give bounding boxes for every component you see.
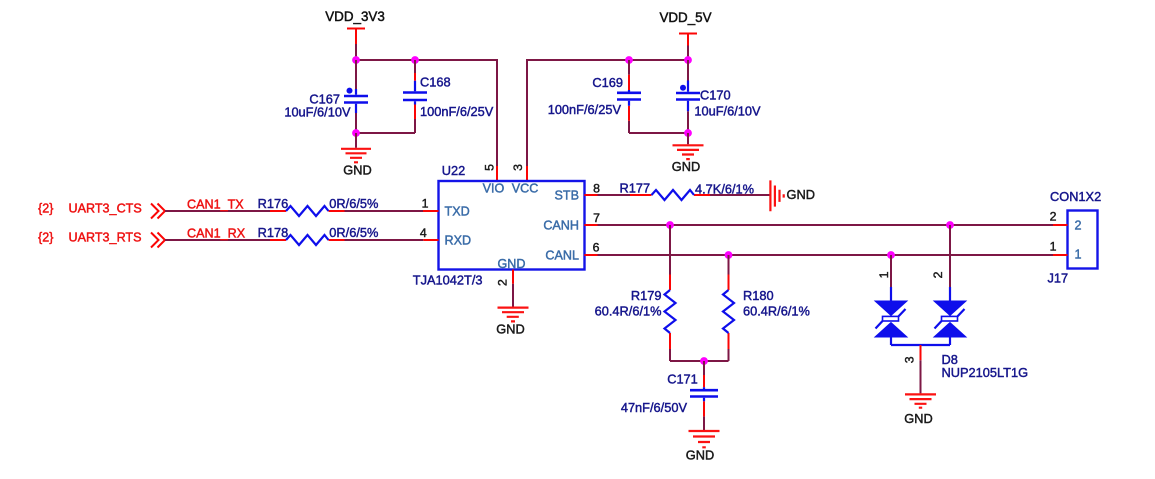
svg-text:2: 2: [931, 271, 945, 278]
svg-text:1: 1: [1050, 240, 1057, 254]
svg-text:GND: GND: [904, 411, 932, 426]
svg-text:STB: STB: [555, 189, 580, 203]
capacitor C169: [548, 60, 641, 133]
wire D8 pin3 to ground: [920, 360, 922, 393]
svg-text:GND: GND: [787, 187, 815, 202]
pin 2 stub J17: [1053, 224, 1068, 226]
wire CANH: [598, 224, 1054, 226]
node junction CANH at R179: [666, 221, 674, 229]
node junction C170 bottom: [684, 129, 692, 137]
svg-text:CAN1_RX: CAN1_RX: [187, 227, 246, 241]
wire D8 bottom bar: [891, 344, 950, 346]
svg-text:CON1X2: CON1X2: [1050, 189, 1101, 204]
svg-text:CANH: CANH: [543, 219, 579, 233]
svg-text:5: 5: [482, 164, 496, 171]
svg-text:C168: C168: [420, 75, 451, 90]
svg-text:CANL: CANL: [545, 248, 579, 262]
svg-text:C171: C171: [667, 372, 698, 387]
node junction CANL at D8: [887, 251, 895, 259]
svg-text:{2}: {2}: [38, 202, 53, 216]
svg-text:TJA1042T/3: TJA1042T/3: [413, 273, 483, 288]
svg-text:0R/6/5%: 0R/6/5%: [329, 225, 378, 240]
svg-text:R179: R179: [631, 288, 662, 303]
pin 1 stub J17: [1053, 254, 1068, 256]
capacitor C167: [284, 60, 368, 133]
ground under D8: [904, 394, 936, 425]
capacitor C168: [403, 60, 494, 133]
svg-text:1: 1: [877, 271, 891, 278]
D8 labels: [942, 352, 1029, 380]
transistor D8 TVS right diode: [934, 225, 966, 345]
svg-text:100nF/6/25V: 100nF/6/25V: [548, 102, 622, 117]
svg-text:47nF/6/50V: 47nF/6/50V: [621, 400, 688, 415]
pin 4 stub: [423, 239, 438, 241]
off-page connector {2} UART3_CTS: [38, 202, 165, 219]
svg-text:6: 6: [593, 241, 600, 255]
ground under C171: [686, 431, 720, 463]
svg-text:R177: R177: [620, 181, 651, 196]
wire R178 to pin 4: [345, 239, 424, 241]
svg-text:{2}: {2}: [38, 231, 53, 245]
svg-text:0R/6/5%: 0R/6/5%: [329, 196, 378, 211]
wire CAN1_TX left: [165, 210, 270, 212]
wire R177 to ground: [710, 194, 770, 196]
svg-text:7: 7: [593, 211, 600, 225]
node junction CANH at D8: [946, 221, 954, 229]
ground under U22 pin 2: [496, 284, 528, 337]
svg-text:GND: GND: [686, 448, 714, 463]
svg-text:GND: GND: [672, 159, 700, 174]
pin 3 stub D8: [920, 345, 922, 360]
svg-text:VIO: VIO: [483, 182, 505, 196]
svg-text:GND: GND: [343, 163, 371, 178]
svg-text:2: 2: [495, 279, 509, 286]
svg-text:C169: C169: [592, 75, 623, 90]
svg-text:UART3_RTS: UART3_RTS: [69, 231, 142, 245]
power port VDD_3V3: [325, 9, 385, 44]
pin 2 stub: [512, 270, 514, 284]
svg-text:J17: J17: [1048, 271, 1069, 286]
resistor R180: [723, 255, 810, 361]
pin 7 stub: [584, 224, 597, 226]
connector J17 CON1X2: [1048, 189, 1102, 286]
wire VDD_5V stub: [687, 46, 689, 61]
capacitor C170: [676, 60, 761, 133]
svg-text:10uF/6/10V: 10uF/6/10V: [694, 104, 761, 119]
resistor R176: [258, 196, 379, 216]
svg-text:UART3_CTS: UART3_CTS: [69, 202, 142, 216]
svg-text:R180: R180: [743, 288, 774, 303]
node junction 5V at C170: [684, 56, 692, 64]
capacitor C171: [621, 361, 718, 430]
wire CANL: [598, 254, 1054, 256]
svg-text:1: 1: [1075, 248, 1082, 262]
off-page connector {2} UART3_RTS: [38, 231, 165, 248]
svg-text:U22: U22: [442, 163, 465, 178]
wire termination bottom rail: [670, 360, 729, 362]
pin 5 stub: [496, 166, 498, 181]
ground under C167: [341, 133, 372, 178]
svg-text:TXD: TXD: [445, 205, 470, 219]
node junction 5V at C169: [625, 56, 633, 64]
wire R176 to pin 1: [345, 210, 424, 212]
wire 5V caps bottom rail: [629, 132, 688, 134]
pin 6 stub: [584, 254, 597, 256]
pin 3 stub: [526, 166, 528, 181]
svg-text:R176: R176: [258, 196, 289, 211]
wire VDD_3V3 stub: [355, 44, 357, 60]
node junction C167 bottom: [352, 129, 360, 137]
svg-text:GND: GND: [496, 322, 524, 337]
svg-text:VCC: VCC: [512, 182, 539, 196]
svg-text:4: 4: [420, 226, 427, 240]
node junction CANL at R180: [725, 251, 733, 259]
transistor D8 TVS left diode: [875, 255, 907, 345]
svg-text:NUP2105LT1G: NUP2105LT1G: [942, 365, 1029, 380]
svg-text:CAN1_TX: CAN1_TX: [187, 198, 244, 212]
svg-text:R178: R178: [258, 225, 289, 240]
svg-text:8: 8: [593, 182, 600, 196]
wire 5V rail to pin 3: [527, 60, 688, 166]
svg-text:3: 3: [903, 356, 917, 363]
ground under C170: [672, 133, 704, 174]
resistor R178: [258, 225, 379, 245]
wire CAN1_RX left: [165, 239, 270, 241]
resistor R177: [620, 181, 755, 201]
svg-text:GND: GND: [498, 257, 526, 271]
svg-text:C170: C170: [700, 88, 731, 103]
svg-text:RXD: RXD: [445, 234, 472, 248]
node junction 3V3 at C167: [352, 56, 360, 64]
resistor R179: [595, 225, 676, 361]
wire 3V3 rail to pin 5: [356, 60, 497, 166]
pin 1 stub: [423, 210, 439, 212]
svg-text:3: 3: [511, 164, 525, 171]
node junction at C171: [700, 357, 708, 365]
power port VDD_5V: [659, 10, 711, 46]
wire STB to R177: [598, 194, 631, 196]
svg-text:100nF/6/25V: 100nF/6/25V: [420, 104, 494, 119]
svg-text:10uF/6/10V: 10uF/6/10V: [284, 105, 351, 120]
node junction 3V3 at C168: [411, 56, 419, 64]
op-amp U22 TJA1042T/3 CAN transceiver body: [413, 163, 585, 288]
svg-text:60.4R/6/1%: 60.4R/6/1%: [595, 304, 662, 319]
svg-text:1: 1: [422, 197, 429, 211]
ground right of R177 (rotated): [770, 180, 815, 211]
svg-text:VDD_5V: VDD_5V: [659, 10, 711, 25]
svg-text:60.4R/6/1%: 60.4R/6/1%: [743, 304, 810, 319]
svg-text:2: 2: [1050, 210, 1057, 224]
svg-text:VDD_3V3: VDD_3V3: [325, 9, 385, 24]
svg-text:2: 2: [1075, 219, 1082, 233]
pin 8 stub: [584, 194, 597, 196]
wire 3V3 caps bottom rail: [356, 132, 415, 134]
